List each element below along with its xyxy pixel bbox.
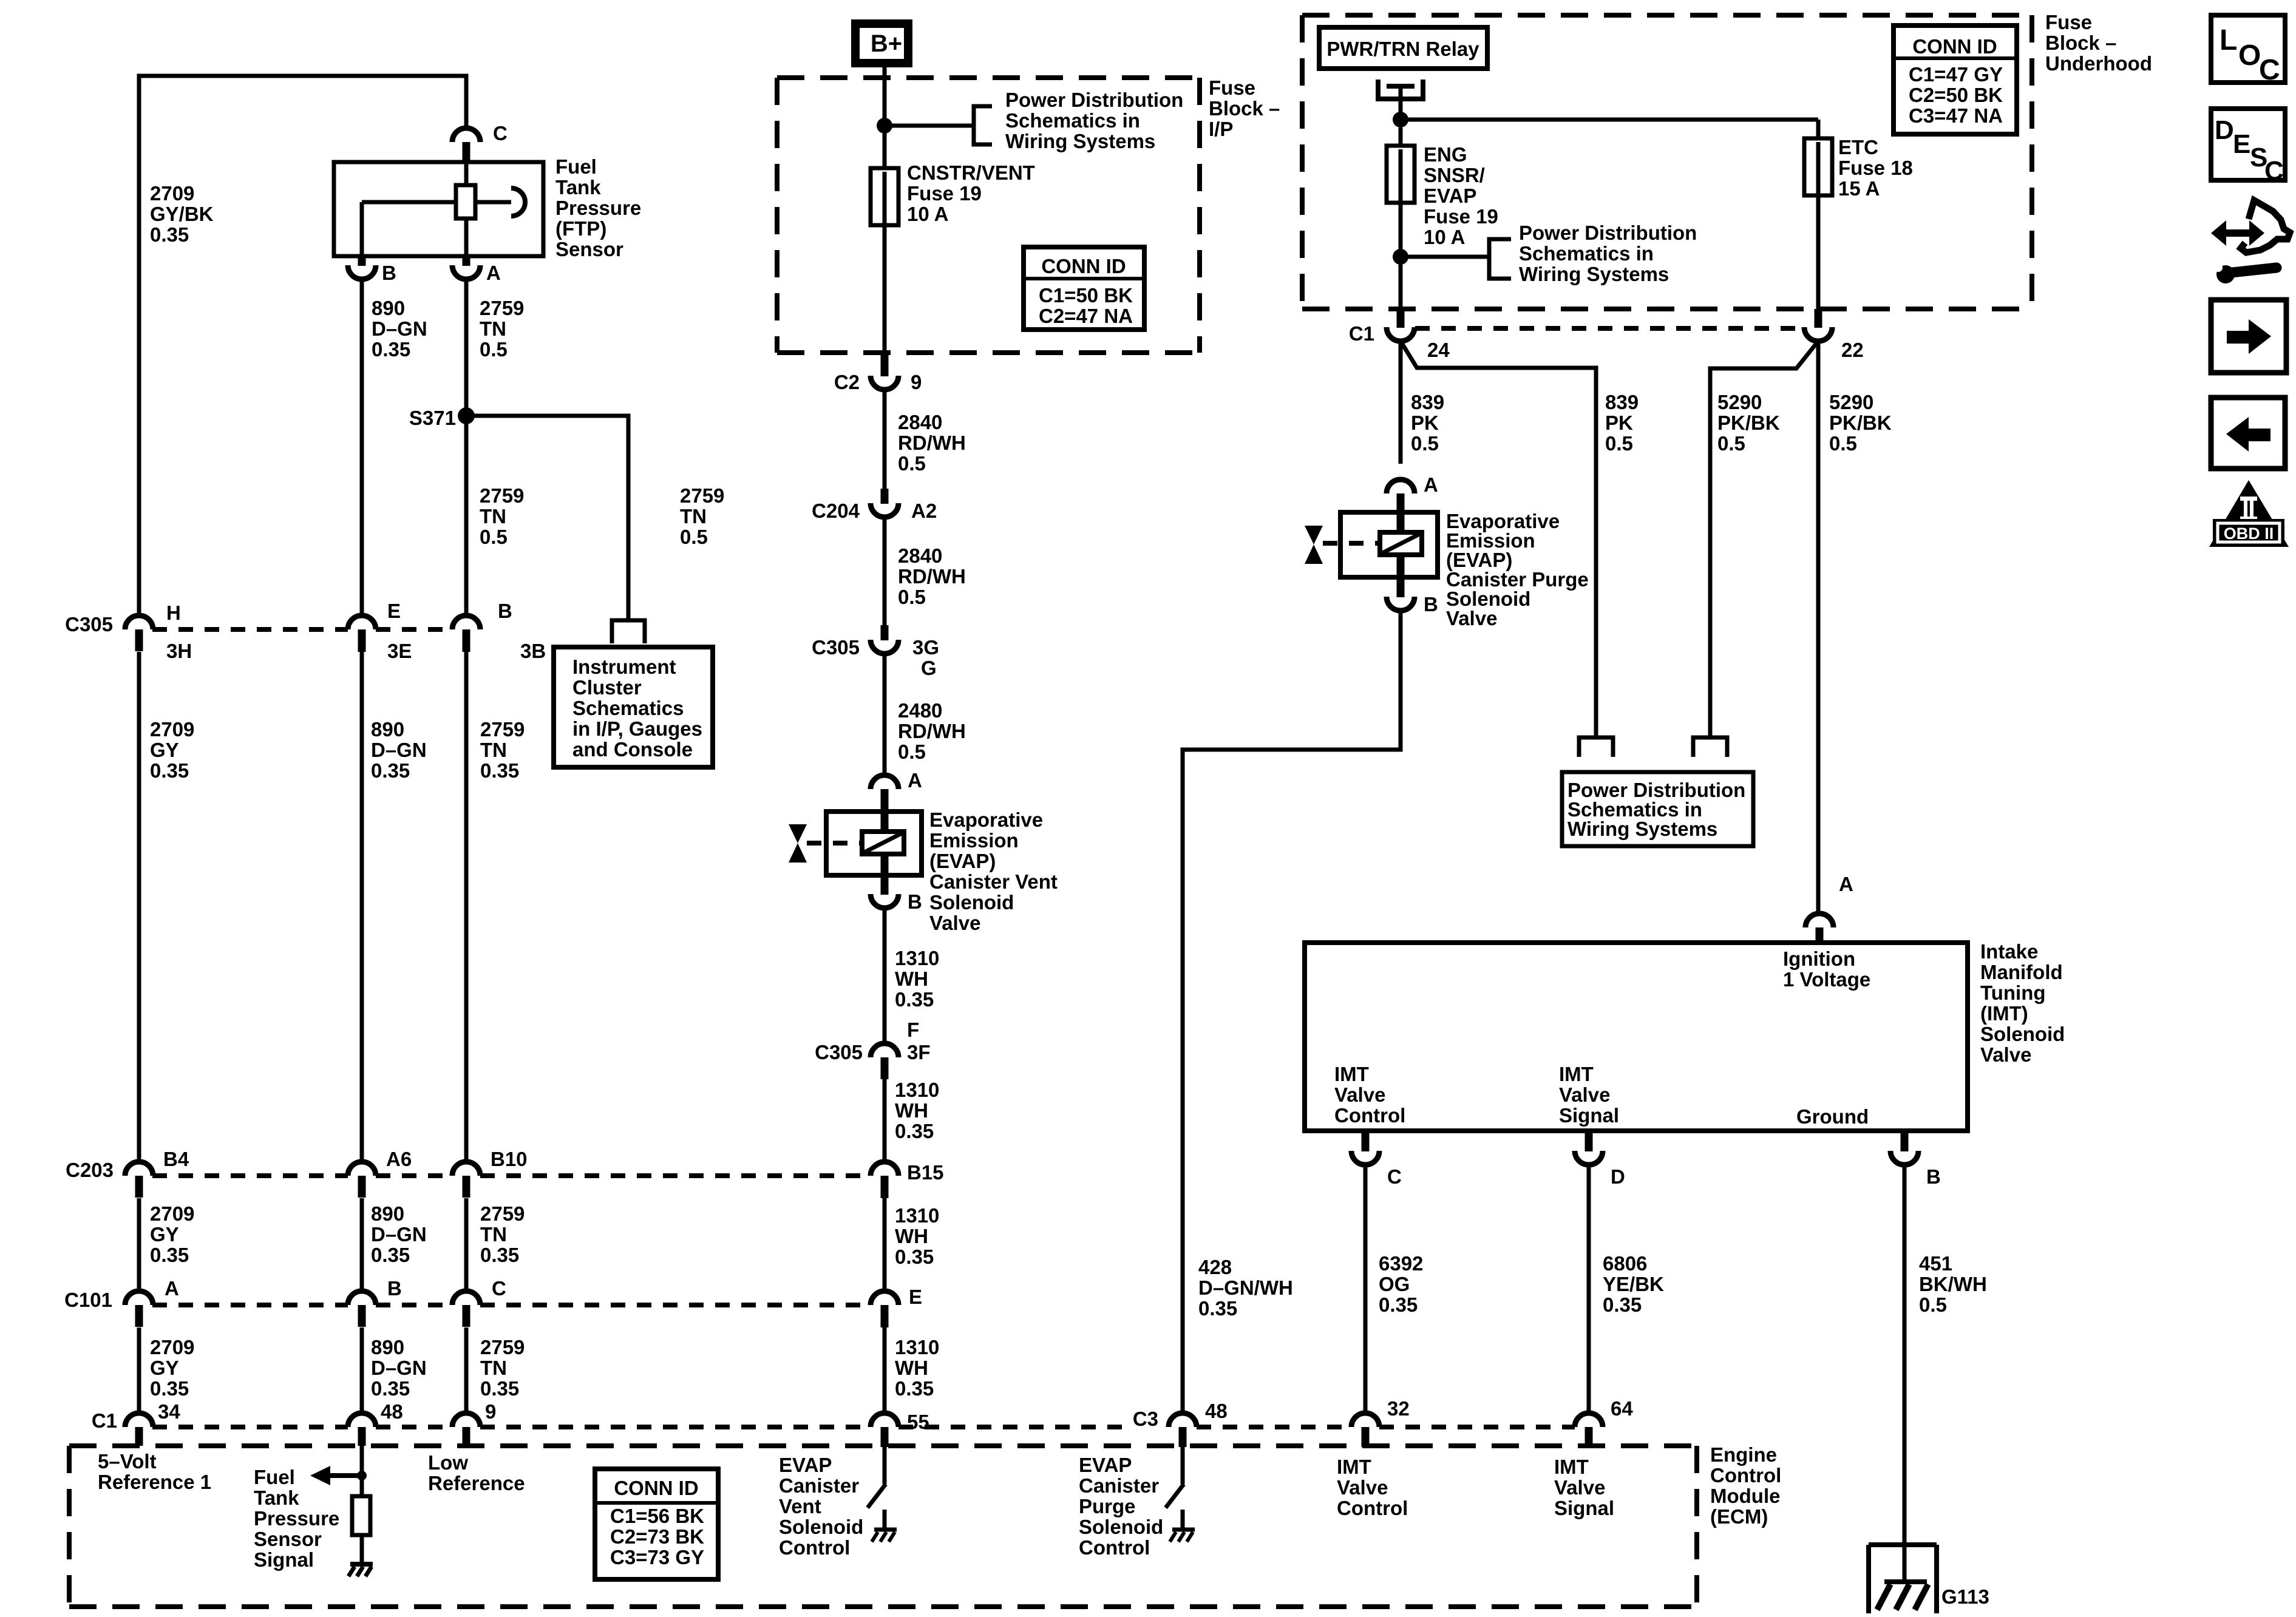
svg-text:890: 890: [371, 1202, 404, 1225]
svg-text:Control: Control: [1334, 1104, 1405, 1127]
svg-text:PK/BK: PK/BK: [1717, 412, 1780, 434]
svg-text:Schematics: Schematics: [572, 697, 684, 719]
svg-text:839: 839: [1605, 391, 1639, 413]
svg-text:10 A: 10 A: [1424, 226, 1465, 248]
svg-text:C204: C204: [812, 500, 860, 522]
svg-text:Tank: Tank: [555, 176, 601, 198]
svg-text:890: 890: [371, 718, 404, 741]
svg-text:A: A: [908, 769, 922, 792]
svg-text:9: 9: [485, 1400, 496, 1423]
svg-text:B: B: [1424, 593, 1438, 615]
svg-text:0.35: 0.35: [150, 759, 189, 782]
svg-text:C3: C3: [1133, 1408, 1158, 1430]
svg-text:2840: 2840: [898, 411, 942, 433]
svg-text:RD/WH: RD/WH: [898, 720, 966, 742]
svg-text:2840: 2840: [898, 544, 942, 567]
svg-text:2709: 2709: [150, 718, 194, 741]
svg-text:Pressure: Pressure: [254, 1507, 339, 1530]
svg-text:Wiring Systems: Wiring Systems: [1519, 263, 1669, 285]
svg-text:B4: B4: [163, 1148, 189, 1170]
svg-text:IMT: IMT: [1554, 1456, 1589, 1478]
svg-text:WH: WH: [895, 968, 928, 990]
svg-text:Fuel: Fuel: [555, 155, 597, 178]
svg-text:Evaporative: Evaporative: [929, 808, 1043, 831]
svg-text:C2=50 BK: C2=50 BK: [1909, 84, 2003, 106]
svg-text:C: C: [493, 122, 508, 144]
svg-text:Valve: Valve: [1554, 1476, 1605, 1499]
svg-text:2709: 2709: [150, 1336, 194, 1358]
svg-text:ENG: ENG: [1424, 143, 1467, 166]
svg-text:IMT: IMT: [1559, 1063, 1594, 1085]
svg-text:Low: Low: [428, 1451, 468, 1474]
svg-text:0.5: 0.5: [898, 586, 926, 608]
svg-text:C1=47 GY: C1=47 GY: [1909, 63, 2003, 86]
svg-text:Module: Module: [1710, 1485, 1780, 1507]
svg-text:3E: 3E: [387, 640, 412, 662]
svg-text:WH: WH: [895, 1357, 928, 1379]
svg-text:Fuse 18: Fuse 18: [1838, 157, 1913, 179]
svg-text:1310: 1310: [895, 1336, 939, 1358]
svg-text:D–GN: D–GN: [371, 1223, 427, 1246]
svg-text:0.35: 0.35: [371, 1244, 410, 1266]
svg-text:(ECM): (ECM): [1710, 1505, 1768, 1528]
svg-text:IMT: IMT: [1334, 1063, 1369, 1085]
svg-text:(EVAP): (EVAP): [929, 850, 996, 872]
svg-text:Signal: Signal: [1554, 1497, 1614, 1519]
svg-text:Control: Control: [1710, 1464, 1781, 1486]
svg-text:6392: 6392: [1379, 1252, 1423, 1275]
svg-text:Fuse: Fuse: [2045, 11, 2092, 33]
svg-text:WH: WH: [895, 1225, 928, 1247]
svg-text:Canister: Canister: [1079, 1474, 1159, 1497]
svg-text:0.35: 0.35: [895, 1120, 934, 1142]
svg-text:48: 48: [381, 1400, 403, 1423]
svg-text:GY: GY: [150, 1223, 179, 1246]
svg-text:0.5: 0.5: [680, 526, 708, 548]
svg-text:I/P: I/P: [1209, 118, 1233, 140]
svg-text:3G: 3G: [912, 636, 939, 659]
svg-text:Underhood: Underhood: [2045, 52, 2152, 75]
svg-text:E: E: [387, 600, 401, 622]
svg-text:Control: Control: [1079, 1536, 1150, 1559]
svg-text:55: 55: [907, 1411, 929, 1433]
svg-text:B: B: [382, 262, 396, 284]
svg-text:0.35: 0.35: [480, 1244, 519, 1266]
svg-text:OG: OG: [1379, 1273, 1410, 1295]
svg-text:C: C: [492, 1277, 506, 1300]
svg-text:S371: S371: [409, 407, 456, 429]
svg-text:1310: 1310: [895, 1204, 939, 1227]
svg-text:5290: 5290: [1717, 391, 1762, 413]
svg-text:0.35: 0.35: [372, 338, 410, 361]
svg-text:PK/BK: PK/BK: [1829, 412, 1892, 434]
svg-text:E: E: [2233, 129, 2250, 159]
svg-text:Block –: Block –: [2045, 32, 2116, 54]
svg-text:Sensor: Sensor: [254, 1528, 322, 1550]
svg-text:in I/P, Gauges: in I/P, Gauges: [572, 717, 702, 740]
svg-text:Solenoid: Solenoid: [1980, 1023, 2065, 1045]
svg-text:2759: 2759: [480, 718, 525, 741]
svg-text:TN: TN: [480, 1223, 507, 1246]
svg-text:Schematics in: Schematics in: [1005, 109, 1140, 132]
svg-text:(IMT): (IMT): [1980, 1002, 2028, 1025]
svg-text:C101: C101: [64, 1289, 112, 1311]
svg-text:5290: 5290: [1829, 391, 1873, 413]
svg-text:C3=73 GY: C3=73 GY: [610, 1546, 704, 1568]
svg-text:Control: Control: [779, 1536, 850, 1559]
svg-text:CONN ID: CONN ID: [1912, 35, 1997, 58]
svg-text:Pressure: Pressure: [555, 197, 641, 219]
svg-text:PK: PK: [1411, 412, 1439, 434]
svg-text:C2=73 BK: C2=73 BK: [610, 1525, 704, 1548]
svg-text:2759: 2759: [480, 297, 524, 319]
svg-text:Reference 1: Reference 1: [98, 1471, 211, 1493]
svg-text:D: D: [1611, 1165, 1625, 1188]
svg-text:0.35: 0.35: [1603, 1293, 1642, 1316]
svg-text:BK/WH: BK/WH: [1919, 1273, 1987, 1295]
svg-text:Ignition: Ignition: [1783, 947, 1855, 970]
svg-text:Sensor: Sensor: [555, 238, 623, 260]
svg-text:Solenoid: Solenoid: [1079, 1516, 1163, 1538]
svg-text:B: B: [908, 890, 922, 913]
svg-text:0.35: 0.35: [150, 1244, 189, 1266]
svg-text:YE/BK: YE/BK: [1603, 1273, 1664, 1295]
svg-text:PWR/TRN Relay: PWR/TRN Relay: [1326, 38, 1479, 60]
svg-text:1 Voltage: 1 Voltage: [1783, 968, 1870, 991]
svg-text:C305: C305: [812, 636, 860, 659]
svg-text:Valve: Valve: [1980, 1043, 2031, 1066]
svg-text:Valve: Valve: [1446, 607, 1497, 629]
svg-text:2709: 2709: [150, 1202, 194, 1225]
svg-text:Signal: Signal: [254, 1548, 314, 1571]
svg-text:2759: 2759: [480, 484, 524, 507]
svg-text:0.35: 0.35: [895, 1377, 934, 1400]
svg-text:D–GN: D–GN: [371, 1357, 427, 1379]
svg-text:EVAP: EVAP: [1079, 1454, 1132, 1476]
svg-text:A6: A6: [386, 1148, 412, 1170]
svg-text:IMT: IMT: [1337, 1456, 1371, 1478]
svg-text:0.5: 0.5: [1717, 432, 1745, 455]
svg-text:890: 890: [372, 297, 405, 319]
svg-text:Solenoid: Solenoid: [779, 1516, 863, 1538]
svg-text:64: 64: [1611, 1397, 1633, 1420]
svg-text:TN: TN: [480, 739, 507, 761]
svg-text:24: 24: [1427, 339, 1450, 361]
svg-text:2709: 2709: [150, 182, 194, 205]
svg-text:Control: Control: [1337, 1497, 1408, 1519]
svg-text:0.5: 0.5: [1919, 1293, 1947, 1316]
svg-text:10 A: 10 A: [907, 203, 948, 225]
svg-text:Schematics in: Schematics in: [1519, 242, 1654, 265]
svg-text:0.35: 0.35: [371, 1377, 410, 1400]
svg-text:C1=50 BK: C1=50 BK: [1039, 284, 1133, 307]
svg-text:0.5: 0.5: [1605, 432, 1633, 455]
svg-text:TN: TN: [680, 505, 707, 527]
svg-text:Purge: Purge: [1079, 1495, 1136, 1517]
svg-text:Power Distribution: Power Distribution: [1005, 89, 1183, 111]
svg-text:C: C: [1387, 1165, 1402, 1188]
svg-text:3F: 3F: [907, 1041, 931, 1063]
svg-text:A: A: [1839, 873, 1853, 895]
svg-text:C: C: [2259, 54, 2280, 86]
svg-text:RD/WH: RD/WH: [898, 432, 966, 454]
svg-text:Instrument: Instrument: [572, 656, 676, 678]
svg-text:Reference: Reference: [428, 1472, 525, 1494]
svg-text:TN: TN: [480, 317, 506, 340]
svg-text:2759: 2759: [480, 1336, 525, 1358]
svg-text:C2=47 NA: C2=47 NA: [1039, 305, 1133, 327]
svg-text:SNSR/: SNSR/: [1424, 164, 1485, 186]
svg-text:Wiring Systems: Wiring Systems: [1005, 130, 1155, 152]
svg-text:H: H: [166, 602, 181, 624]
svg-text:C1: C1: [1349, 322, 1374, 345]
svg-text:C1=56 BK: C1=56 BK: [610, 1505, 704, 1527]
svg-text:2759: 2759: [680, 484, 724, 507]
svg-text:GY: GY: [150, 739, 179, 761]
svg-text:Cluster: Cluster: [572, 676, 642, 699]
svg-text:C305: C305: [65, 613, 113, 636]
svg-text:0.35: 0.35: [371, 759, 410, 782]
svg-text:B15: B15: [907, 1161, 944, 1184]
svg-text:6806: 6806: [1603, 1252, 1647, 1275]
svg-text:Engine: Engine: [1710, 1443, 1777, 1466]
svg-text:0.35: 0.35: [895, 988, 934, 1011]
svg-text:(FTP): (FTP): [555, 217, 606, 240]
svg-text:D–GN: D–GN: [371, 739, 427, 761]
svg-text:0.35: 0.35: [150, 1377, 189, 1400]
svg-text:0.35: 0.35: [150, 223, 189, 246]
svg-text:Ground: Ground: [1796, 1105, 1869, 1128]
svg-text:ETC: ETC: [1838, 136, 1878, 158]
svg-text:0.5: 0.5: [898, 741, 926, 763]
svg-text:PK: PK: [1605, 412, 1633, 434]
svg-text:Vent: Vent: [779, 1495, 821, 1517]
svg-text:C305: C305: [815, 1041, 863, 1063]
svg-text:Fuse 19: Fuse 19: [1424, 205, 1498, 228]
svg-text:1310: 1310: [895, 1079, 939, 1101]
svg-text:Valve: Valve: [929, 912, 980, 934]
svg-text:B+: B+: [871, 30, 902, 57]
svg-text:D–GN/WH: D–GN/WH: [1198, 1276, 1293, 1299]
svg-text:CNSTR/VENT: CNSTR/VENT: [907, 161, 1035, 184]
svg-text:E: E: [909, 1286, 922, 1308]
svg-text:Block –: Block –: [1209, 97, 1280, 120]
svg-text:G: G: [921, 657, 937, 679]
svg-text:Emission: Emission: [929, 829, 1019, 852]
svg-text:Solenoid: Solenoid: [929, 891, 1014, 914]
svg-text:3H: 3H: [166, 640, 192, 662]
svg-text:0.35: 0.35: [1379, 1293, 1418, 1316]
svg-text:TN: TN: [480, 1357, 507, 1379]
svg-text:A2: A2: [911, 500, 937, 522]
svg-text:Fuel: Fuel: [254, 1466, 295, 1488]
svg-text:48: 48: [1205, 1400, 1228, 1422]
svg-text:890: 890: [371, 1336, 404, 1358]
svg-text:GY/BK: GY/BK: [150, 203, 214, 225]
svg-text:Valve: Valve: [1559, 1083, 1610, 1106]
svg-text:0.5: 0.5: [898, 452, 926, 475]
svg-text:0.5: 0.5: [1829, 432, 1857, 455]
svg-text:2480: 2480: [898, 699, 942, 722]
svg-text:G113: G113: [1941, 1585, 1989, 1608]
svg-text:22: 22: [1841, 339, 1864, 361]
svg-text:Fuse 19: Fuse 19: [907, 182, 982, 205]
svg-text:RD/WH: RD/WH: [898, 565, 966, 588]
svg-text:A: A: [486, 262, 501, 284]
svg-text:Intake: Intake: [1980, 940, 2038, 963]
svg-text:Valve: Valve: [1337, 1476, 1388, 1499]
svg-text:0.35: 0.35: [1198, 1297, 1237, 1320]
svg-text:Signal: Signal: [1559, 1104, 1619, 1127]
svg-text:D–GN: D–GN: [372, 317, 427, 340]
svg-text:EVAP: EVAP: [1424, 185, 1476, 207]
svg-text:F: F: [907, 1019, 919, 1041]
svg-text:B10: B10: [491, 1148, 528, 1170]
svg-text:CONN ID: CONN ID: [1041, 255, 1126, 277]
svg-text:Tank: Tank: [254, 1486, 299, 1509]
svg-text:GY: GY: [150, 1357, 179, 1379]
svg-text:0.35: 0.35: [480, 759, 519, 782]
svg-text:D: D: [2215, 115, 2234, 145]
svg-text:Canister Vent: Canister Vent: [929, 870, 1058, 893]
svg-text:Canister: Canister: [779, 1474, 859, 1497]
svg-text:0.35: 0.35: [895, 1246, 934, 1268]
svg-text:5–Volt: 5–Volt: [98, 1450, 157, 1473]
svg-text:0.5: 0.5: [480, 338, 508, 361]
svg-text:Fuse: Fuse: [1209, 76, 1255, 99]
svg-text:A: A: [165, 1277, 179, 1300]
svg-text:451: 451: [1919, 1252, 1952, 1275]
svg-text:0.5: 0.5: [480, 526, 508, 548]
svg-text:OBD II: OBD II: [2224, 524, 2274, 543]
svg-text:O: O: [2238, 39, 2261, 72]
svg-text:C: C: [2264, 156, 2284, 186]
svg-text:B: B: [1926, 1165, 1941, 1188]
svg-text:EVAP: EVAP: [779, 1454, 832, 1476]
svg-text:C203: C203: [66, 1159, 114, 1181]
svg-text:B: B: [498, 600, 512, 622]
svg-text:15 A: 15 A: [1838, 177, 1880, 200]
svg-text:1310: 1310: [895, 947, 939, 969]
svg-text:B: B: [387, 1277, 402, 1300]
svg-text:32: 32: [1387, 1397, 1410, 1420]
svg-text:Power Distribution: Power Distribution: [1519, 222, 1697, 244]
svg-text:WH: WH: [895, 1099, 928, 1122]
svg-text:34: 34: [158, 1400, 180, 1423]
svg-text:TN: TN: [480, 505, 506, 527]
svg-text:C1: C1: [92, 1409, 117, 1432]
svg-text:C2: C2: [834, 371, 860, 393]
svg-text:CONN ID: CONN ID: [614, 1477, 698, 1499]
svg-text:3B: 3B: [520, 640, 546, 662]
svg-text:Tuning: Tuning: [1980, 981, 2046, 1004]
svg-text:A: A: [1424, 473, 1438, 496]
svg-text:0.5: 0.5: [1411, 432, 1439, 455]
svg-text:9: 9: [911, 371, 922, 393]
svg-text:C3=47 NA: C3=47 NA: [1909, 104, 2003, 127]
svg-text:839: 839: [1411, 391, 1444, 413]
svg-text:2759: 2759: [480, 1202, 525, 1225]
svg-text:Manifold: Manifold: [1980, 961, 2063, 983]
svg-text:Valve: Valve: [1334, 1083, 1385, 1106]
svg-text:L: L: [2220, 24, 2237, 56]
svg-text:and Console: and Console: [572, 738, 693, 761]
svg-text:Wiring Systems: Wiring Systems: [1567, 818, 1717, 840]
svg-text:0.35: 0.35: [480, 1377, 519, 1400]
svg-text:428: 428: [1198, 1256, 1232, 1278]
